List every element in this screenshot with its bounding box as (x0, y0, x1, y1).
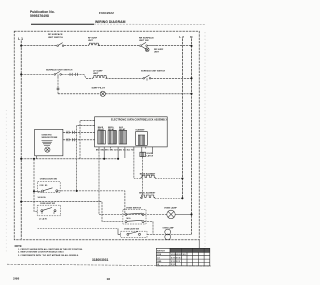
heater bake element (141, 175, 155, 178)
terminal pilot tap mark (57, 88, 60, 89)
svg-text:UNIT: UNIT (93, 73, 99, 75)
wire bake row left (134, 178, 141, 180)
svg-text:UNIT: UNIT (154, 52, 160, 54)
svg-text:UNIT SW: UNIT SW (139, 40, 149, 42)
lamp surface unit pilot (100, 91, 105, 96)
svg-text:X X X X X X: X X X X X X (171, 261, 181, 263)
wire EOC pin6 drop to bake (133, 149, 135, 179)
switch S8 door jamb switch dashed box (118, 228, 147, 237)
svg-text:SURFACE UNIT SWITCH: SURFACE UNIT SWITCH (141, 70, 166, 73)
wire row2 mid segment (106, 77, 144, 79)
wire pilot row right to N (105, 93, 191, 95)
switch S5 oven door switch dashed box (38, 182, 61, 193)
node lamp-N junction (190, 213, 192, 215)
svg-text:X X X X X X X: X X X X X X X (171, 257, 183, 259)
node pin2 bus junction (103, 158, 105, 160)
wire oven lamp row (99, 213, 167, 215)
wire EOC left feed A (80, 120, 95, 159)
node door switch tee (33, 190, 35, 192)
svg-text:UNIT SWITCH: UNIT SWITCH (48, 37, 63, 39)
label RF surface unit switch (48, 33, 63, 39)
svg-text:BK1 BK2 BR1 BR2 AX1 AX2: BK1 BK2 BR1 BR2 AX1 AX2 EL1 EL2 N1 (96, 149, 134, 152)
node L1 lower bus junction (20, 158, 22, 160)
wire TOD drop to broil (141, 157, 143, 199)
switch S7 oven switch block (123, 210, 146, 225)
sensor probe symbol (42, 141, 53, 153)
wire lamp to N (175, 213, 191, 215)
N supply rail (191, 38, 193, 234)
svg-text:L1 H1 L2 H2 P N S: L1 H1 L2 H2 P N S (171, 254, 186, 256)
svg-text:SWITCH: SWITCH (157, 251, 165, 253)
wire bake row right (155, 178, 182, 180)
svg-text:1A 2A: 1A 2A (126, 217, 131, 220)
relay K4 element relay (136, 132, 148, 146)
heater RF surface unit element (89, 43, 100, 46)
svg-text:ELECTRONIC OVEN CONTROL: ELECTRONIC OVEN CONTROL (111, 119, 147, 121)
publication number text (30, 10, 55, 18)
heater LF surface unit element (93, 76, 107, 79)
svg-text:OVEN LIGHT SW: OVEN LIGHT SW (40, 203, 55, 205)
node bus drop junction (33, 158, 35, 160)
node L1 top junction (20, 45, 22, 47)
svg-text:2. SWITCH SHOWN COOKTOP MODEL: 2. SWITCH SHOWN COOKTOP MODELS ONLY. (18, 252, 64, 254)
label broil relay (108, 127, 115, 131)
svg-text:BROIL ELEMENT: BROIL ELEMENT (139, 193, 156, 195)
switch chart table (156, 248, 209, 266)
wire jamb switch to lamp2 (147, 234, 165, 236)
wire EOC pin5 drop to oven switch (124, 149, 126, 159)
svg-text:SURFACE UNIT SWITCH: SURFACE UNIT SWITCH (46, 69, 73, 72)
connector plug marks upper (67, 131, 74, 134)
wire lamp2 dashed feed (38, 227, 119, 229)
node L1 lamp junction (20, 201, 22, 203)
wire lower bus horizontal (21, 158, 118, 160)
svg-text:18: 18 (107, 277, 111, 281)
svg-text:L 1: L 1 (18, 37, 23, 41)
label RF surface unit (88, 38, 98, 42)
wire sensor box drop (36, 156, 38, 159)
svg-text:N: N (190, 35, 192, 39)
switch S1 RF surface unit switch (57, 43, 64, 47)
terminal strip EOC bottom pins (99, 147, 153, 149)
svg-text:UNIT: UNIT (88, 40, 94, 42)
wire pilot branch vertical (57, 77, 59, 94)
svg-text:1A 2A 3A: 1A 2A 3A (38, 196, 47, 199)
scan ghost left margin (5, 110, 7, 252)
wire L1 lamp feed (21, 202, 123, 222)
wire row1 left segment (21, 45, 57, 47)
svg-text:/ CLOCK ASSEMBLY: / CLOCK ASSEMBLY (143, 118, 167, 121)
wire EOC pin7 drop to TOD (141, 149, 143, 153)
label RR surface unit (154, 49, 164, 53)
switch S3 LF surface unit switch (54, 71, 61, 76)
relay K1 bake relay (98, 130, 106, 144)
wire EOC left feed B (77, 125, 95, 191)
wire EOC pin4 drop (117, 149, 119, 159)
svg-text:RR SURFACE: RR SURFACE (139, 37, 154, 40)
node pin4 bus junction (117, 158, 119, 160)
thermostat RTD sensor box (35, 129, 63, 156)
wire row1 mid segment (64, 45, 89, 47)
svg-text:NOTE:: NOTE: (15, 245, 23, 248)
node feedB junction (76, 190, 78, 192)
wire row1 right segment to N (156, 45, 192, 47)
schematic border frame (14, 31, 199, 240)
op electronic oven control U1 box (95, 117, 168, 147)
node row1-N junction (190, 45, 192, 47)
node pilot-N junction (190, 93, 192, 95)
svg-text:L1 LA H1: L1 LA H1 (39, 217, 47, 220)
svg-text:5995376498: 5995376498 (30, 14, 49, 18)
wire into door switch (34, 190, 41, 192)
svg-text:ELEMENT: ELEMENT (136, 130, 146, 132)
svg-text:SURF PILOT: SURF PILOT (92, 88, 106, 90)
wire row1 segment to center switch (98, 45, 140, 47)
thermal switch TOD box (140, 152, 146, 156)
svg-text:LATCH: LATCH (147, 154, 154, 157)
wire row2 left segment (21, 73, 54, 75)
wire pilot row left (58, 93, 100, 95)
svg-text:3. COMPONENTS WITH * DO NOT: 3. COMPONENTS WITH * DO NOT APPEAR ON AL… (18, 254, 79, 257)
svg-text:OVEN DOOR SW: OVEN DOOR SW (40, 179, 57, 181)
relay K3 aux relay (119, 130, 127, 144)
svg-text:RF SURFACE: RF SURFACE (48, 33, 63, 36)
connector marks row2 (70, 73, 78, 76)
wire lamp2 to N (171, 234, 192, 236)
header rule (31, 23, 94, 25)
L2 supply rail (181, 38, 183, 198)
switch S4 LR surface unit switch (143, 75, 151, 81)
heater broil element (141, 195, 155, 198)
label latch relay (119, 126, 126, 131)
wire sensor to EOC upper (63, 131, 95, 133)
label RR surface unit switch (139, 37, 154, 43)
wire door switch feed (34, 159, 38, 212)
switch S6 oven light switch dashed box (37, 205, 61, 216)
label bake relay (98, 126, 105, 131)
wire EOC pin2 drop (103, 149, 105, 159)
svg-text:2/98: 2/98 (13, 276, 19, 280)
label TOD (147, 153, 154, 157)
svg-text:L 2: L 2 (179, 35, 184, 39)
notes block (15, 245, 84, 257)
label oven sensor (42, 135, 59, 139)
svg-text:318003031: 318003031 (92, 258, 109, 262)
wire row2 right segment to N (151, 77, 192, 79)
lamp oven lamp (167, 210, 175, 218)
svg-text:OVEN LIGHT SW: OVEN LIGHT SW (124, 228, 139, 230)
scan ghost right margin (204, 32, 206, 247)
lamp rear oven lamp (165, 229, 171, 240)
wire oven switch to rear lamp (144, 222, 153, 235)
connector plug marks lower (67, 138, 74, 141)
relay K2 broil relay (108, 130, 116, 144)
switch S2 RR surface unit switch with pilot (140, 42, 156, 51)
wire EOC pin1 long drop (98, 149, 100, 215)
svg-text:COM NO: COM NO (40, 185, 49, 187)
L1 supply rail (20, 41, 22, 239)
svg-text:SENSOR PROBE: SENSOR PROBE (42, 137, 59, 139)
svg-text:1. CIRCUIT SHOWN WITH ALL SWI: 1. CIRCUIT SHOWN WITH ALL SWITCHES IN TH… (18, 248, 83, 251)
node bake-L2 junction (181, 177, 183, 179)
wire frame stub to chart (198, 240, 200, 249)
wire door switch output (58, 191, 125, 215)
footer rule (7, 264, 211, 266)
svg-text:F04C2022: F04C2022 (99, 11, 114, 15)
label LF surface unit (93, 71, 103, 76)
node row2-N junction (190, 77, 192, 79)
svg-text:WIRING DIAGRAM: WIRING DIAGRAM (95, 20, 126, 24)
node L1 row2 junction (20, 73, 22, 75)
svg-text:OVEN LAMP: OVEN LAMP (164, 207, 177, 210)
wire row2 step segment (61, 74, 93, 78)
node broil-L2 junction (181, 197, 183, 199)
wire broil row right (155, 197, 183, 199)
wire sensor to EOC lower (63, 139, 95, 141)
